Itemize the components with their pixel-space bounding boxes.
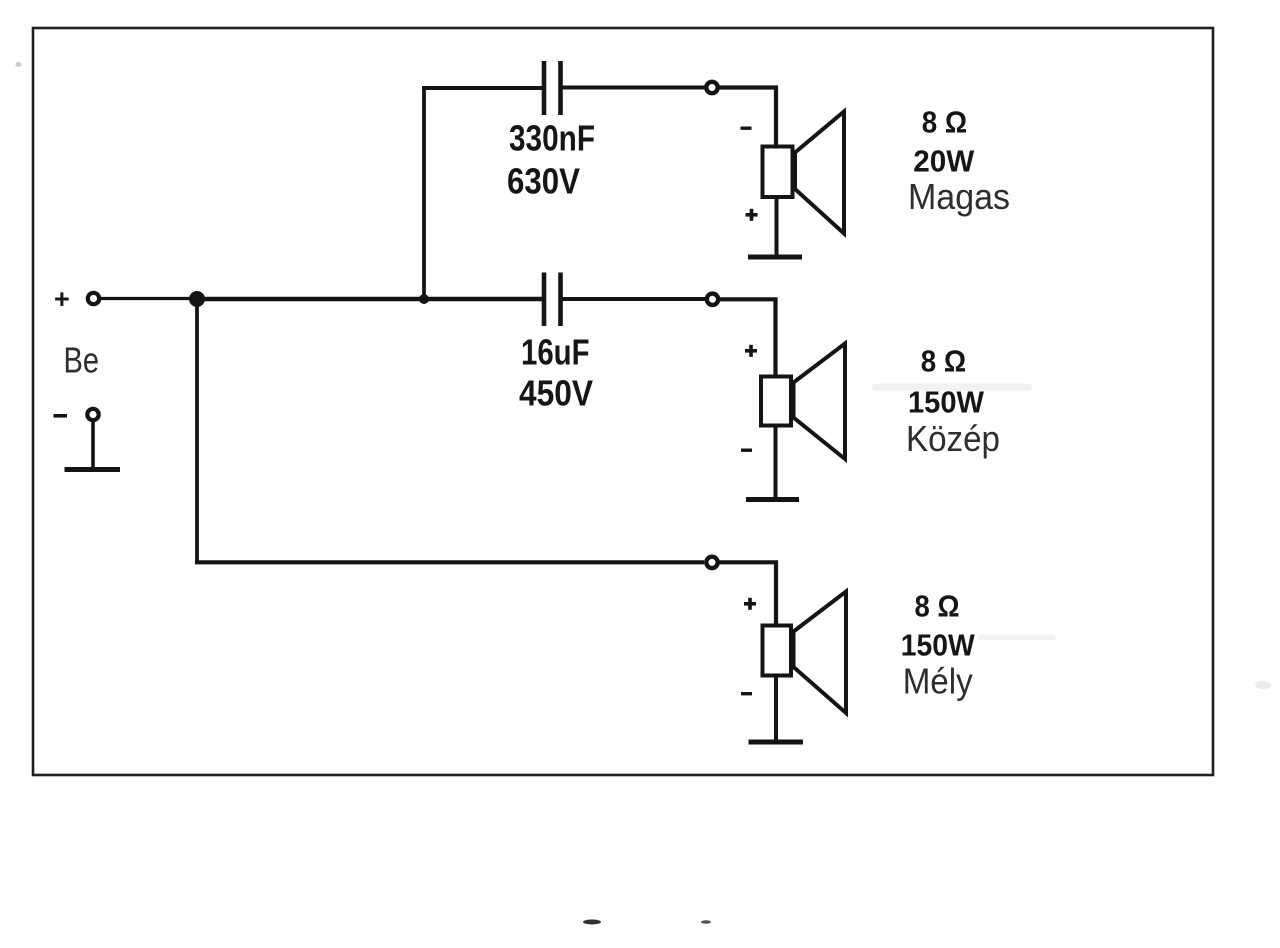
wire: [195, 299, 199, 562]
stray mark: [583, 920, 601, 925]
svg-text:450V: 450V: [519, 373, 593, 414]
stray mark: [978, 635, 1056, 641]
svg-text:16uF: 16uF: [521, 332, 590, 373]
svg-text:8 Ω: 8 Ω: [921, 344, 966, 379]
node terminal T2: [707, 294, 718, 305]
stray mark: [701, 920, 711, 924]
svg-text:Be: Be: [64, 340, 100, 381]
capacitor C2 16uF: [544, 273, 561, 327]
svg-text:+: +: [54, 284, 70, 314]
wire: [720, 88, 777, 147]
node junction B: [419, 294, 429, 304]
svg-text:20W: 20W: [913, 144, 975, 179]
wire: [195, 560, 704, 564]
wire: [774, 676, 778, 742]
svg-text:330nF: 330nF: [509, 118, 595, 159]
svg-text:Mély: Mély: [903, 661, 973, 702]
node input terminal -: [87, 409, 98, 420]
stray mark: [1255, 681, 1271, 689]
svg-text:Magas: Magas: [908, 176, 1010, 217]
wire: [720, 299, 776, 376]
wire: [774, 426, 778, 500]
speaker LS1: [763, 112, 845, 234]
speaker LS3 minus: [741, 692, 752, 695]
speaker LS1 minus: [741, 127, 752, 130]
node input terminal +: [88, 293, 99, 304]
speaker LS3: [763, 592, 847, 714]
input minus polarity label: [54, 414, 68, 418]
ground: [749, 740, 804, 745]
wire: [775, 197, 779, 256]
wire: [720, 562, 777, 625]
wire: [563, 86, 705, 90]
stray mark: [16, 62, 22, 67]
wire: [422, 88, 426, 299]
svg-text:630V: 630V: [507, 161, 580, 202]
speaker LS1 plus: [746, 209, 758, 221]
capacitor C1 330nF: [544, 61, 561, 115]
wire main bus: [197, 297, 542, 302]
node terminal T3: [706, 557, 717, 568]
border frame: [33, 28, 1213, 775]
speaker LS3 plus: [744, 598, 756, 610]
node junction A: [189, 291, 205, 307]
wire: [422, 86, 542, 90]
wire: [563, 297, 706, 301]
speaker LS2 minus: [741, 449, 752, 452]
ground: [748, 255, 802, 260]
svg-text:8 Ω: 8 Ω: [915, 589, 960, 624]
svg-text:150W: 150W: [901, 628, 976, 663]
speaker LS2 plus: [745, 345, 757, 357]
wire: [100, 297, 194, 300]
svg-text:Közép: Közép: [906, 418, 1000, 459]
stray mark: [872, 384, 1032, 391]
wire: [91, 420, 95, 469]
ground: [746, 497, 799, 502]
svg-text:8 Ω: 8 Ω: [922, 105, 967, 140]
node terminal T1: [706, 82, 717, 93]
ground: [65, 467, 121, 472]
speaker LS2: [761, 344, 845, 460]
